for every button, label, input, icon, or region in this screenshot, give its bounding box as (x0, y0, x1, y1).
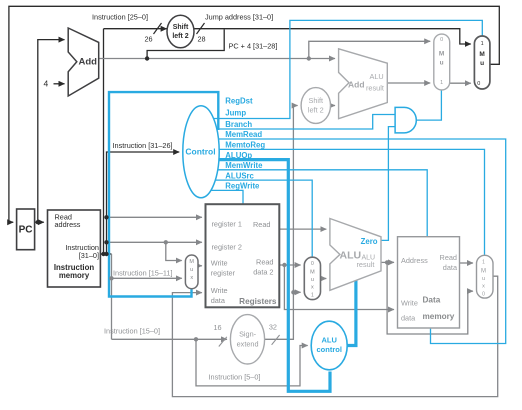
wire branch mux output to jump mux input 0 (450, 82, 471, 84)
wire ALU result to data memory address (381, 261, 394, 263)
svg-text:0: 0 (482, 292, 485, 298)
wire instruction [20-16] drop to RegDst mux input 0 (166, 242, 182, 260)
wire ALUSrc mux output to ALU (321, 278, 327, 280)
wire PC-write wrap-around from jump mux output to PC input (9, 6, 499, 222)
svg-text:Read: Read (440, 253, 457, 262)
shift left 2 (branch) (301, 88, 330, 124)
svg-text:Read: Read (256, 258, 273, 267)
wire instruction [20-16] to read register 2 (107, 241, 202, 243)
svg-text:M: M (189, 259, 194, 265)
wire ALU result bypass to final mux input 0 (387, 262, 473, 334)
svg-text:x: x (311, 285, 314, 291)
svg-text:[31–0]: [31–0] (79, 251, 99, 260)
ALU main (330, 219, 381, 291)
wire instruction [15-0] to sign extend (112, 338, 228, 340)
svg-text:Instruction [15–0]: Instruction [15–0] (104, 327, 160, 336)
AND gate branch (395, 107, 416, 132)
svg-text:data: data (401, 314, 416, 323)
svg-text:Read: Read (253, 220, 270, 229)
svg-text:Instruction [5–0]: Instruction [5–0] (209, 373, 261, 382)
junction PC+4 to branch mux (307, 56, 311, 60)
svg-text:memory: memory (59, 271, 90, 280)
svg-text:data 2: data 2 (253, 268, 273, 277)
wire read data 2 to data memory write data (284, 265, 394, 310)
junction PC+4 tap (145, 56, 149, 60)
wire PC+4 from Add to branch adder (99, 58, 335, 60)
registers file (206, 204, 280, 307)
svg-text:memory: memory (423, 312, 455, 321)
svg-text:Jump: Jump (225, 109, 246, 118)
wire PC value up to Add (38, 40, 65, 223)
wire MemtoReg control to final mux (201, 149, 485, 255)
svg-text:u: u (190, 267, 193, 273)
wire ALUSrc control to ALUSrc mux (201, 180, 312, 257)
svg-text:extend: extend (237, 340, 259, 349)
svg-text:ALUOp: ALUOp (225, 151, 252, 160)
svg-text:Instruction [25–0]: Instruction [25–0] (92, 13, 148, 22)
junction instruction trunk A (101, 252, 105, 256)
junction read register 1 tap (104, 215, 108, 219)
mux MemtoReg (477, 255, 494, 298)
wire sign extend output riser to shift left 2 (265, 106, 298, 340)
svg-text:ALU: ALU (321, 336, 336, 345)
svg-text:u: u (480, 60, 484, 67)
svg-text:M: M (310, 270, 315, 276)
svg-text:left 2: left 2 (172, 33, 188, 40)
svg-text:x: x (190, 275, 193, 281)
wire Branch control to AND gate (201, 115, 395, 130)
control unit (183, 106, 219, 198)
svg-text:RegDst: RegDst (225, 96, 253, 105)
wire read data 1 to ALU (280, 228, 327, 230)
junction read register 2 tap (104, 240, 108, 244)
svg-text:result: result (357, 260, 375, 269)
svg-text:M: M (439, 51, 444, 58)
svg-text:left 2: left 2 (308, 106, 324, 115)
svg-text:28: 28 (197, 35, 205, 44)
svg-text:ALU: ALU (370, 72, 384, 81)
wire branch adder result to branch mux input 1 (387, 82, 430, 84)
svg-text:4: 4 (44, 79, 49, 89)
wire instruction [5-0] to ALU control (196, 339, 308, 386)
wire read data 2 to ALUSrc mux input 0 (280, 264, 301, 266)
wire AND gate output PCSrc to branch mux (416, 90, 441, 120)
svg-text:data: data (443, 263, 458, 272)
svg-text:PC + 4 [31–28]: PC + 4 [31–28] (229, 42, 278, 51)
svg-text:26: 26 (144, 35, 152, 44)
PC register (17, 209, 35, 250)
svg-text:1: 1 (481, 41, 484, 47)
wire RegDst control to RegDst mux (109, 92, 218, 296)
svg-text:u: u (482, 276, 485, 282)
svg-text:Sign-: Sign- (239, 330, 257, 339)
junction instruction 15-11 (109, 276, 113, 280)
svg-text:register 1: register 1 (212, 220, 242, 229)
wire MemRead control to data memory (201, 139, 506, 344)
svg-text:Add: Add (348, 79, 365, 89)
svg-text:0: 0 (311, 261, 314, 267)
svg-text:1: 1 (440, 80, 443, 86)
svg-text:Branch: Branch (225, 120, 252, 129)
svg-text:Jump address [31–0]: Jump address [31–0] (205, 13, 273, 22)
wire instruction [15-11] to RegDst mux input 1 (112, 254, 182, 339)
wire RegDst mux output to write register (198, 265, 202, 267)
svg-text:MemWrite: MemWrite (225, 161, 263, 170)
junction instruction 5-0 (194, 337, 198, 341)
junction PC output (36, 220, 40, 224)
svg-text:MemRead: MemRead (225, 130, 262, 139)
svg-text:result: result (366, 84, 384, 93)
svg-text:data: data (211, 296, 226, 305)
svg-text:Instruction [31–26]: Instruction [31–26] (113, 141, 173, 150)
sign extend (230, 315, 264, 364)
svg-text:1: 1 (482, 260, 485, 266)
svg-text:Registers: Registers (239, 297, 277, 306)
junction read data 2 (282, 263, 286, 267)
svg-text:Data: Data (423, 296, 441, 305)
slash 28-bit (197, 23, 205, 34)
svg-text:register 2: register 2 (212, 243, 242, 252)
wire write-back from final mux to registers write data (172, 276, 497, 396)
svg-text:Control: Control (185, 147, 215, 157)
svg-text:control: control (316, 345, 341, 354)
wire memory read data to final mux input 1 (460, 262, 474, 264)
svg-text:PC: PC (19, 225, 33, 236)
svg-text:Shift: Shift (308, 96, 323, 105)
junction instruction 20-16 to mux (164, 240, 168, 244)
mux ALUSrc (304, 257, 320, 299)
wire Zero flag to AND gate (381, 127, 395, 241)
adder Add ALU result (branch) (339, 49, 388, 119)
mux RegDst (185, 255, 198, 289)
instruction memory (48, 210, 101, 287)
wire ALUOp control to ALU control unit (201, 160, 330, 392)
wire PC+4 [31-28] tap into jump address bundle (147, 29, 224, 58)
wire instruction [25-0] riser and feed to shift left 2 (104, 29, 167, 254)
adder Add (PC+4) (68, 28, 99, 96)
mux branch (PCSrc) (434, 34, 450, 90)
wire instruction [31-0] output stub (100, 253, 111, 255)
junction instruction trunk B (104, 252, 108, 256)
wire ALU control output to ALU (347, 281, 356, 346)
svg-text:Write: Write (211, 259, 228, 268)
svg-text:16: 16 (213, 323, 221, 332)
svg-text:u: u (440, 60, 444, 67)
svg-text:Address: Address (401, 256, 428, 265)
wire constant 4 into Add (54, 83, 65, 85)
junction sign extend to ALUSrc mux (291, 290, 295, 294)
svg-text:Instruction [15–11]: Instruction [15–11] (113, 268, 173, 277)
slash 26-bit (154, 23, 162, 34)
svg-text:address: address (55, 220, 81, 229)
wire instruction [31-26] riser to Control (107, 152, 180, 254)
svg-text:Write: Write (211, 286, 228, 295)
wire RegWrite control to registers (201, 190, 243, 203)
wire shift left 2 output to branch adder (331, 105, 336, 107)
svg-text:0: 0 (477, 81, 480, 87)
svg-text:Write: Write (401, 299, 418, 308)
junction ALU result (385, 260, 389, 264)
wire PC+4 to branch mux input 0 (309, 41, 430, 58)
data memory (398, 237, 460, 328)
ALU control unit (311, 321, 347, 370)
shift left 2 (jump) (167, 15, 194, 48)
svg-text:MemtoReg: MemtoReg (225, 141, 265, 150)
svg-text:M: M (479, 51, 484, 58)
wire jump address [31-0] to jump mux input 1 (194, 29, 470, 44)
svg-text:ALUSrc: ALUSrc (225, 171, 254, 180)
svg-text:Add: Add (79, 57, 98, 68)
wire MemWrite control to data memory (201, 170, 427, 237)
svg-text:M: M (481, 269, 486, 275)
svg-text:Shift: Shift (173, 24, 189, 31)
wire PC output to instruction memory read address (35, 221, 44, 223)
wire Jump control to jump mux (201, 20, 482, 118)
slash 16-bit (219, 337, 227, 347)
svg-text:0: 0 (440, 37, 443, 43)
mux jump (474, 36, 490, 89)
svg-text:u: u (311, 277, 314, 283)
slash 32-bit (272, 335, 280, 345)
wire instruction [25-21] to read register 1 (107, 216, 202, 218)
svg-text:register: register (211, 269, 236, 278)
svg-text:x: x (482, 284, 485, 290)
svg-text:RegWrite: RegWrite (225, 182, 260, 191)
wire sign extend output to ALUSrc mux input 1 (293, 291, 300, 293)
svg-text:Zero: Zero (361, 237, 378, 246)
svg-text:1: 1 (311, 293, 314, 299)
svg-text:32: 32 (269, 323, 277, 332)
